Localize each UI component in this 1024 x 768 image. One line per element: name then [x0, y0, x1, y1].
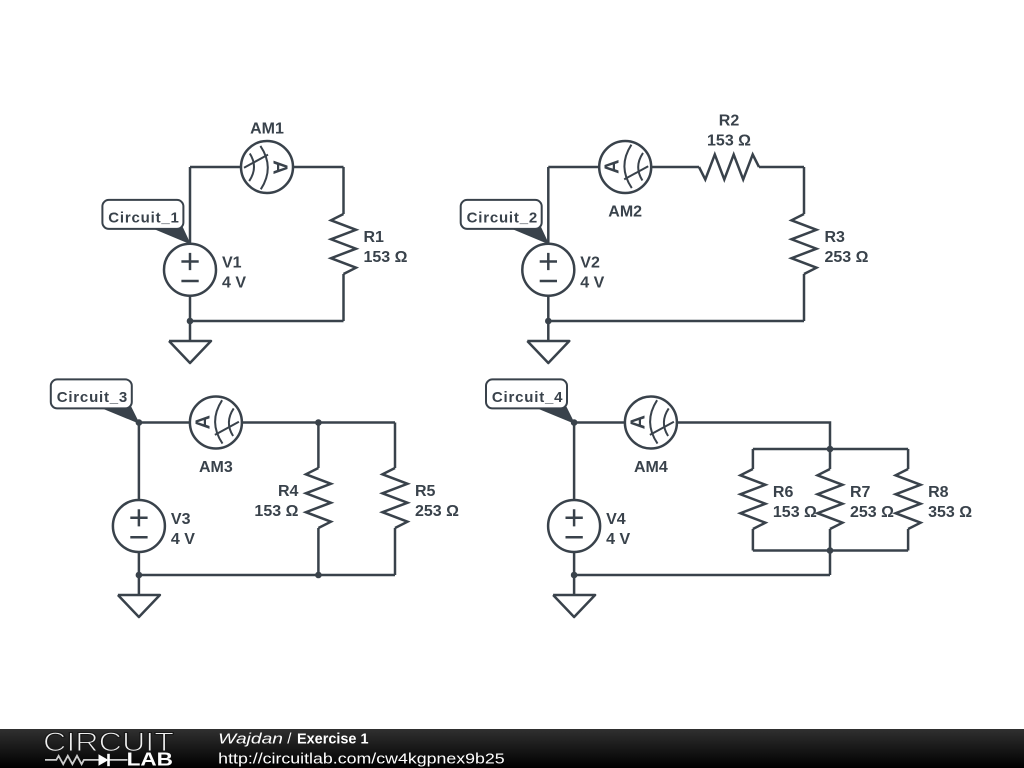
- svg-text:4 V: 4 V: [222, 275, 246, 292]
- wire C4 bottom: [574, 574, 830, 577]
- wire C2 right upper: [803, 167, 806, 214]
- svg-text:253 Ω: 253 Ω: [850, 504, 894, 521]
- svg-text:V3: V3: [171, 511, 191, 528]
- junction node C4 rail top: [827, 446, 834, 453]
- junction node C1 bottom: [187, 318, 194, 325]
- resistor R3: [792, 214, 817, 274]
- svg-text:153 Ω: 153 Ω: [254, 503, 298, 520]
- svg-text:4 V: 4 V: [606, 531, 630, 548]
- wire C3 left: [138, 423, 141, 501]
- wire C2 top left: [548, 166, 699, 169]
- svg-text:V2: V2: [580, 255, 600, 272]
- junction node C3 top left: [136, 419, 143, 426]
- wire C1 right upper: [342, 167, 345, 214]
- svg-text:LAB: LAB: [127, 750, 173, 768]
- svg-text:Circuit_1: Circuit_1: [108, 210, 179, 227]
- junction node C4 rail bottom: [827, 547, 834, 554]
- svg-text:153 Ω: 153 Ω: [364, 249, 408, 266]
- wire C4 left: [573, 423, 576, 501]
- wire C3 V3 bottom stub: [138, 552, 141, 575]
- svg-text:4 V: 4 V: [580, 275, 604, 292]
- svg-text:153 Ω: 153 Ω: [707, 133, 751, 150]
- svg-text:4 V: 4 V: [171, 531, 195, 548]
- voltage source V1: [164, 244, 216, 296]
- callout Circuit_1: [102, 200, 189, 244]
- wire C2 top right: [759, 166, 804, 169]
- svg-text:R8: R8: [928, 484, 949, 501]
- wire C1 bottom: [190, 320, 344, 323]
- wire C3 R4 top stub: [317, 423, 320, 469]
- junction node C3 R4 bottom: [315, 572, 322, 579]
- svg-text:http://circuitlab.com/cw4kgpne: http://circuitlab.com/cw4kgpnex9b25: [218, 750, 505, 767]
- resistor R6: [740, 469, 765, 529]
- svg-text:253 Ω: 253 Ω: [415, 503, 459, 520]
- voltage source V4: [548, 500, 600, 552]
- wire C4 down from rail: [829, 551, 832, 576]
- ground C2: [527, 321, 569, 363]
- callout Circuit_4: [486, 379, 574, 423]
- ground C1: [169, 321, 211, 363]
- ground C4: [553, 575, 595, 617]
- resistor R5: [383, 468, 408, 528]
- wire C4 R8 stubs: [907, 449, 910, 551]
- svg-text:V1: V1: [222, 255, 242, 272]
- wire C3 bottom: [139, 574, 395, 577]
- resistor R2: [699, 155, 759, 180]
- wire C4 top rail: [753, 448, 908, 451]
- resistor R1: [331, 214, 356, 274]
- svg-text:R6: R6: [773, 484, 794, 501]
- svg-text:Circuit_4: Circuit_4: [492, 389, 563, 406]
- svg-text:AM2: AM2: [608, 203, 642, 220]
- svg-text:R4: R4: [278, 483, 299, 500]
- wire C3 R5 top stub: [394, 423, 397, 469]
- junction node C4 bottom left: [571, 572, 578, 579]
- svg-text:Exercise 1: Exercise 1: [297, 731, 369, 748]
- wire C1 V1 bottom stub: [189, 296, 192, 321]
- svg-text:AM1: AM1: [250, 121, 284, 138]
- wire C2 right lower: [803, 274, 806, 321]
- svg-text:AM4: AM4: [634, 459, 668, 476]
- ammeter AM3: [190, 397, 242, 449]
- svg-text:253 Ω: 253 Ω: [825, 249, 869, 266]
- wire C1 left: [189, 167, 192, 244]
- wire C1 right lower: [342, 274, 345, 321]
- resistor R7: [818, 469, 843, 529]
- svg-text:153 Ω: 153 Ω: [773, 504, 817, 521]
- wire C1 top: [190, 166, 344, 169]
- svg-text:V4: V4: [606, 511, 626, 528]
- junction node C3 bottom left: [136, 572, 143, 579]
- resistor R4: [306, 468, 331, 528]
- ammeter AM4: [625, 397, 677, 449]
- svg-text:R1: R1: [364, 229, 385, 246]
- svg-text:Circuit_2: Circuit_2: [467, 210, 538, 227]
- wire C3 R4 bottom stub: [317, 528, 320, 575]
- junction node C4 top left: [571, 419, 578, 426]
- svg-text:R2: R2: [719, 113, 740, 130]
- wire C2 V2 bottom stub: [547, 296, 550, 321]
- wire C3 top: [139, 421, 395, 424]
- svg-text:353 Ω: 353 Ω: [928, 504, 972, 521]
- svg-text:Wajdan: Wajdan: [218, 731, 283, 748]
- junction node C3 R4 top: [315, 419, 322, 426]
- svg-text:R3: R3: [825, 229, 846, 246]
- footer bar: [0, 727, 1024, 768]
- ammeter AM2: [599, 141, 651, 193]
- wire C4 bottom rail: [753, 549, 908, 552]
- wire C4 R6 stubs: [752, 449, 755, 551]
- wire C3 R5 bottom stub: [394, 528, 397, 575]
- svg-text:R5: R5: [415, 483, 436, 500]
- wire C4 top: [574, 423, 830, 450]
- voltage source V2: [522, 244, 574, 296]
- wire C4 R7 stubs: [829, 449, 832, 551]
- callout Circuit_2: [461, 200, 549, 244]
- svg-text:R7: R7: [850, 484, 871, 501]
- wire C2 bottom: [548, 320, 804, 323]
- ammeter AM1: [241, 141, 293, 193]
- wire C2 left: [547, 167, 550, 244]
- ground C3: [118, 575, 160, 617]
- svg-text:AM3: AM3: [199, 459, 233, 476]
- resistor R8: [896, 469, 921, 529]
- callout Circuit_3: [51, 379, 139, 423]
- svg-text:Circuit_3: Circuit_3: [57, 389, 128, 406]
- junction node C2 bottom: [545, 318, 552, 325]
- wire C4 V4 bottom stub: [573, 552, 576, 575]
- voltage source V3: [113, 500, 165, 552]
